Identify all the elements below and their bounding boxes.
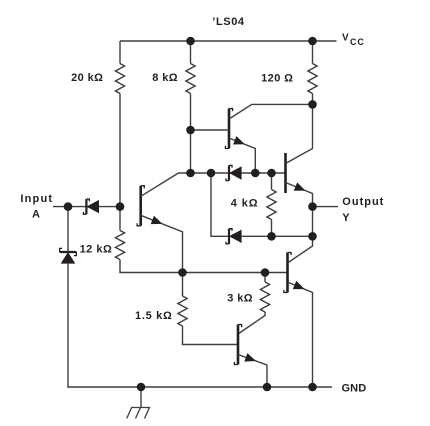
svg-text:4 kΩ: 4 kΩ — [231, 197, 259, 209]
svg-text:20 kΩ: 20 kΩ — [71, 72, 103, 84]
svg-text:V: V — [342, 32, 349, 43]
svg-text:1.5 kΩ: 1.5 kΩ — [135, 310, 173, 322]
svg-text:’LS04: ’LS04 — [212, 16, 245, 28]
svg-text:Output: Output — [342, 196, 384, 208]
svg-text:A: A — [32, 208, 40, 220]
svg-text:120 Ω: 120 Ω — [261, 72, 293, 84]
svg-text:12 kΩ: 12 kΩ — [80, 243, 113, 255]
svg-text:3 kΩ: 3 kΩ — [227, 293, 253, 305]
svg-text:GND: GND — [342, 382, 367, 394]
svg-text:Y: Y — [342, 212, 350, 224]
svg-text:8 kΩ: 8 kΩ — [152, 72, 178, 84]
svg-text:Input: Input — [20, 193, 53, 205]
svg-text:CC: CC — [350, 37, 365, 47]
